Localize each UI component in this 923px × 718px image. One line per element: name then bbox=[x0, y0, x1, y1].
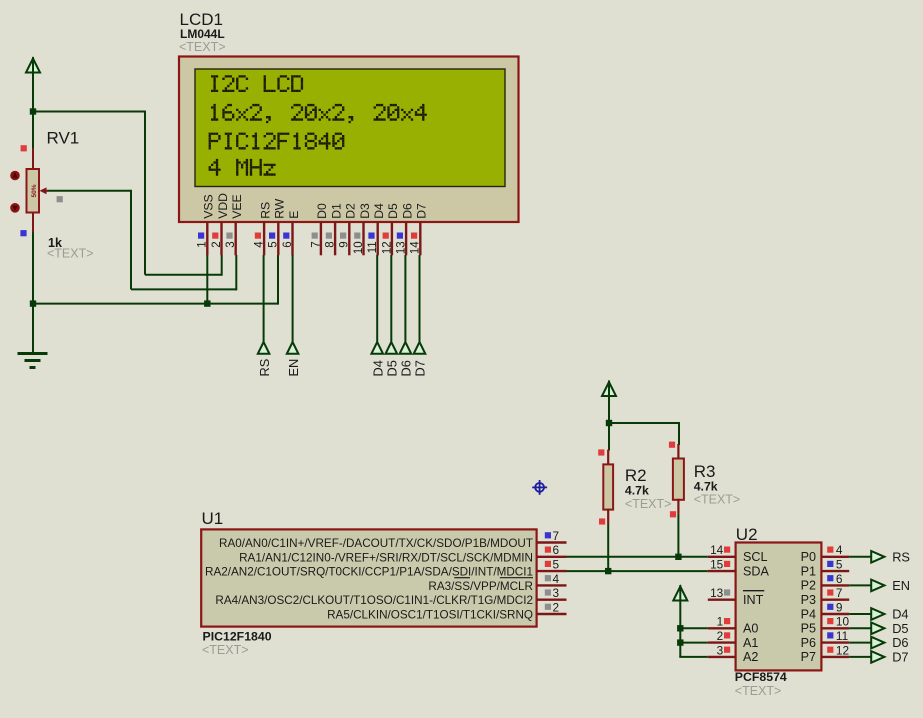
LCD1 pin 8 (D1) bbox=[325, 203, 344, 255]
svg-text:D7: D7 bbox=[413, 360, 428, 376]
svg-text:RS: RS bbox=[892, 549, 910, 564]
ground bbox=[18, 354, 48, 368]
LCD1 pin 13 (D6) bbox=[396, 203, 415, 255]
power terminal (R2/R3 pull-up supply) bbox=[602, 381, 616, 424]
svg-text:RA5/CLKIN/OSC1/T1OSI/T1CKI/SRN: RA5/CLKIN/OSC1/T1OSI/T1CKI/SRNQ bbox=[327, 609, 533, 622]
U2 pin 10 bbox=[821, 615, 849, 629]
svg-text:<TEXT>: <TEXT> bbox=[202, 643, 249, 657]
svg-text:6: 6 bbox=[836, 572, 843, 586]
LCD1 pin 7 (D0) bbox=[310, 203, 329, 255]
wire LCD D7 to terminal bbox=[419, 255, 421, 342]
svg-text:P3: P3 bbox=[801, 593, 816, 607]
U2 pin 15 bbox=[708, 558, 736, 572]
RV1 marker blue bbox=[20, 230, 26, 236]
wire LCD pin1 (VSS) to ground rail bbox=[206, 255, 208, 304]
value R3 4.7k bbox=[694, 480, 718, 494]
svg-text:D7: D7 bbox=[892, 650, 908, 665]
LCD LM044L body bbox=[179, 57, 519, 223]
junction RV1/ground rail bbox=[30, 300, 36, 306]
wire A0 bbox=[680, 627, 708, 629]
LCD text line 3: PIC12F1840 bbox=[209, 133, 345, 150]
wire LCD D5 to terminal bbox=[390, 255, 392, 342]
svg-text:RA4/AN3/OSC2/CLKOUT/T1OSO/C1IN: RA4/AN3/OSC2/CLKOUT/T1OSO/C1IN1-/CLKR/T1… bbox=[215, 594, 533, 607]
U2 pin 3 bbox=[708, 643, 736, 657]
svg-text:6: 6 bbox=[282, 241, 294, 247]
svg-text:7: 7 bbox=[553, 529, 560, 543]
svg-text:4: 4 bbox=[254, 241, 266, 248]
U1 pin 3 bbox=[537, 586, 567, 600]
LCD1 &lt;TEXT&gt; bbox=[179, 40, 226, 54]
LCD1 pin 6 (E) bbox=[282, 211, 301, 256]
U2 pin 12 bbox=[821, 643, 849, 657]
svg-text:A0: A0 bbox=[743, 622, 758, 636]
U1 pin 2 bbox=[537, 600, 567, 614]
U2 pin 9 bbox=[821, 600, 849, 614]
svg-text:PCF8574: PCF8574 bbox=[735, 670, 787, 684]
svg-text:<TEXT>: <TEXT> bbox=[625, 497, 672, 511]
U2 &lt;TEXT&gt; bbox=[735, 684, 782, 698]
wire supply to R2 top bbox=[608, 423, 610, 451]
wire U2 pin 11 to terminal D6 bbox=[849, 642, 871, 644]
U2 pin 6 bbox=[821, 572, 849, 586]
U1 &lt;TEXT&gt; bbox=[202, 643, 249, 657]
svg-text:RW: RW bbox=[273, 198, 287, 219]
svg-text:SCL: SCL bbox=[743, 550, 768, 564]
U2 pin 7 bbox=[821, 586, 849, 600]
svg-text:RS: RS bbox=[258, 202, 272, 219]
wire U2 pin 12 to terminal D7 bbox=[849, 656, 871, 658]
label LCD1 bbox=[180, 10, 223, 29]
terminal RS bbox=[871, 549, 910, 564]
svg-text:P1: P1 bbox=[801, 564, 816, 578]
svg-text:9: 9 bbox=[339, 241, 351, 247]
svg-text:D7: D7 bbox=[415, 203, 429, 219]
svg-text:<TEXT>: <TEXT> bbox=[694, 493, 741, 507]
svg-text:A2: A2 bbox=[743, 650, 758, 664]
resistor R2 bbox=[603, 450, 613, 524]
terminal EN bbox=[871, 578, 910, 593]
svg-text:A1: A1 bbox=[743, 636, 758, 650]
svg-text:4.7k: 4.7k bbox=[625, 484, 649, 498]
LCD screen bbox=[195, 69, 505, 187]
svg-text:5: 5 bbox=[553, 558, 560, 572]
svg-text:PIC12F1840: PIC12F1840 bbox=[203, 630, 272, 644]
RV1 down actuator bbox=[10, 203, 20, 213]
LCD1 pin 1 (VSS) bbox=[197, 194, 216, 255]
svg-text:11: 11 bbox=[836, 629, 848, 643]
label RV1 bbox=[47, 129, 80, 148]
svg-text:R2: R2 bbox=[625, 466, 647, 485]
svg-text:RA0/AN0/C1IN+/VREF-/DACOUT/TX/: RA0/AN0/C1IN+/VREF-/DACOUT/TX/CK/SDO/P1B… bbox=[219, 537, 533, 550]
svg-text:D5: D5 bbox=[386, 203, 400, 219]
wire LCD D6 to terminal bbox=[404, 255, 406, 342]
svg-text:SDA: SDA bbox=[743, 564, 769, 578]
svg-text:P7: P7 bbox=[801, 650, 816, 664]
svg-text:P2: P2 bbox=[801, 579, 816, 593]
IC U1 PIC12F1840 body bbox=[201, 529, 536, 626]
R3 &lt;TEXT&gt; bbox=[694, 493, 741, 507]
svg-text:10: 10 bbox=[836, 615, 850, 629]
svg-text:D0: D0 bbox=[315, 203, 329, 219]
LCD1 pin 2 (VDD) bbox=[211, 193, 230, 255]
svg-text:1: 1 bbox=[197, 241, 209, 247]
LCD text line 1: I2C LCD bbox=[211, 75, 303, 92]
LCD1 pin 3 (VEE) bbox=[225, 194, 244, 255]
svg-text:INT: INT bbox=[743, 593, 764, 607]
LCD1 pin 4 (RS) bbox=[254, 202, 273, 255]
label R3 bbox=[694, 462, 716, 481]
U2 pin 11 bbox=[821, 629, 849, 643]
R2 marker bottom bbox=[599, 518, 605, 524]
RV1 &lt;TEXT&gt; bbox=[47, 247, 94, 261]
wire A1 bbox=[680, 642, 708, 644]
wire A2 bbox=[679, 656, 708, 658]
terminal D6 bbox=[399, 342, 414, 377]
svg-text:EN: EN bbox=[286, 359, 301, 377]
terminal D4 bbox=[871, 607, 908, 622]
svg-text:2: 2 bbox=[553, 600, 560, 614]
terminal D7 bbox=[871, 650, 908, 665]
LCD1 pin 11 (D4) bbox=[367, 203, 386, 255]
svg-text:7: 7 bbox=[310, 241, 322, 247]
svg-text:3: 3 bbox=[553, 586, 560, 600]
junction supply bbox=[606, 420, 612, 426]
svg-text:4: 4 bbox=[836, 543, 843, 557]
U2 pin 13 bbox=[708, 586, 736, 600]
RV1 wiper arrow bbox=[40, 187, 49, 194]
svg-text:<TEXT>: <TEXT> bbox=[47, 247, 94, 261]
junction RV1 top bbox=[30, 108, 36, 114]
svg-text:11: 11 bbox=[367, 241, 379, 253]
U1 pin 7 bbox=[537, 529, 567, 543]
svg-text:9: 9 bbox=[836, 600, 843, 614]
terminal D5 bbox=[871, 621, 908, 636]
junction R2/SDA bbox=[605, 568, 611, 574]
value R2 4.7k bbox=[625, 484, 649, 498]
svg-text:13: 13 bbox=[396, 241, 408, 254]
svg-text:14: 14 bbox=[410, 241, 422, 254]
svg-text:VDD: VDD bbox=[216, 193, 230, 219]
svg-text:VEE: VEE bbox=[230, 194, 244, 218]
wire U2 pin 6 to terminal EN bbox=[849, 584, 871, 586]
svg-text:2: 2 bbox=[211, 241, 223, 247]
wire SCL (U1 pin6 to U2 SCL) bbox=[567, 556, 708, 558]
svg-text:VSS: VSS bbox=[202, 194, 216, 218]
svg-text:P6: P6 bbox=[801, 636, 816, 650]
LCD text line 2: 16x2, 20x2, 20x4 bbox=[211, 104, 427, 123]
junction R3/SCL bbox=[675, 554, 681, 560]
svg-text:RA2/AN2/C1OUT/SRQ/T0CKI/CCP1/P: RA2/AN2/C1OUT/SRQ/T0CKI/CCP1/P1A/SDA/SDI… bbox=[205, 566, 533, 579]
R3 marker top bbox=[669, 442, 675, 448]
wire SDA (U1 pin5 to U2 SDA) bbox=[567, 570, 708, 572]
svg-text:RV1: RV1 bbox=[47, 129, 80, 148]
wire U2 pin 4 to terminal RS bbox=[849, 556, 871, 558]
wire supply to R3 top bbox=[609, 422, 679, 445]
svg-text:D1: D1 bbox=[329, 203, 343, 219]
LCD1 pin 5 (RW) bbox=[268, 198, 287, 255]
svg-text:P5: P5 bbox=[801, 622, 816, 636]
svg-text:10: 10 bbox=[353, 241, 365, 254]
terminal D7 bbox=[413, 342, 428, 377]
svg-text:D2: D2 bbox=[344, 203, 358, 219]
R3 marker bottom bbox=[670, 511, 676, 517]
junction A0 bbox=[677, 625, 683, 631]
potentiometer RV1 bbox=[27, 148, 40, 232]
label U1 bbox=[202, 509, 224, 528]
svg-text:4: 4 bbox=[553, 572, 560, 586]
U2 pin 2 bbox=[708, 629, 736, 643]
svg-text:50%: 50% bbox=[31, 184, 38, 197]
svg-text:RS: RS bbox=[257, 359, 272, 377]
LCD1 pin 9 (D2) bbox=[339, 203, 358, 255]
label R2 bbox=[625, 466, 647, 485]
svg-text:7: 7 bbox=[836, 586, 843, 600]
svg-text:R3: R3 bbox=[694, 462, 716, 481]
wire LCD D4 to terminal bbox=[376, 255, 378, 342]
wire LCD pin6 E to terminal bbox=[292, 255, 294, 342]
U2 pin 14 bbox=[708, 543, 736, 557]
wire U2 pin 9 to terminal D4 bbox=[849, 613, 871, 615]
U1 pin 5 bbox=[537, 558, 567, 572]
svg-text:5: 5 bbox=[836, 558, 843, 572]
svg-text:<TEXT>: <TEXT> bbox=[179, 40, 226, 54]
wire ground rail bbox=[33, 303, 278, 305]
terminal D6 bbox=[871, 635, 908, 650]
svg-text:4.7k: 4.7k bbox=[694, 480, 718, 494]
wire R3 bottom to SCL bbox=[677, 514, 679, 557]
LCD text line 4: 4 MHz bbox=[209, 159, 276, 176]
IC U2 PCF8574 body bbox=[736, 543, 822, 671]
wire R2 bottom to SDA bbox=[607, 524, 609, 572]
RV1 marker red bbox=[21, 145, 27, 151]
junction VSS/ground rail bbox=[204, 300, 210, 306]
RV1 up actuator bbox=[10, 171, 20, 181]
svg-text:1: 1 bbox=[717, 615, 724, 629]
terminal RS bbox=[257, 342, 272, 377]
power terminal (VDD arrow, RV1 top) bbox=[26, 57, 40, 150]
svg-text:8: 8 bbox=[325, 241, 337, 247]
svg-text:D6: D6 bbox=[400, 203, 414, 219]
svg-text:5: 5 bbox=[268, 241, 280, 247]
R2 &lt;TEXT&gt; bbox=[625, 497, 672, 511]
LCD1 pin 12 (D5) bbox=[381, 203, 400, 255]
svg-text:2: 2 bbox=[717, 629, 724, 643]
svg-text:EN: EN bbox=[892, 578, 910, 593]
svg-text:D4: D4 bbox=[372, 203, 386, 219]
wire VDD rail RV1-top to LCD pin2 bbox=[33, 111, 222, 276]
resistor R3 bbox=[673, 444, 684, 514]
U1 pin 4 bbox=[537, 572, 567, 586]
svg-text:LM044L: LM044L bbox=[180, 27, 225, 41]
svg-text:14: 14 bbox=[710, 543, 724, 557]
LCD1 pin 14 (D7) bbox=[410, 203, 429, 255]
wire LCD pin4 RS to terminal bbox=[263, 255, 265, 342]
junction A1 bbox=[677, 639, 683, 645]
svg-text:13: 13 bbox=[710, 586, 724, 600]
value LM044L bbox=[180, 27, 225, 41]
svg-text:D6: D6 bbox=[892, 635, 908, 650]
label PCF8574 bbox=[735, 670, 787, 684]
svg-text:15: 15 bbox=[710, 558, 724, 572]
value 1k bbox=[48, 236, 62, 250]
RV1 marker gray bbox=[57, 196, 63, 202]
terminal D4 bbox=[370, 342, 385, 377]
LCD1 pin 10 (D3) bbox=[353, 203, 372, 255]
svg-text:D5: D5 bbox=[385, 360, 400, 376]
wire U2 pin 10 to terminal D5 bbox=[849, 627, 871, 629]
svg-text:12: 12 bbox=[836, 643, 849, 657]
svg-text:D4: D4 bbox=[370, 360, 385, 376]
power terminal (U2 address pins) bbox=[673, 585, 687, 657]
svg-text:D6: D6 bbox=[399, 360, 414, 376]
svg-text:6: 6 bbox=[553, 543, 560, 557]
svg-text:D4: D4 bbox=[892, 607, 908, 622]
R2 marker top bbox=[598, 449, 604, 455]
svg-text:D3: D3 bbox=[358, 203, 372, 219]
svg-text:U2: U2 bbox=[736, 525, 758, 544]
label PIC12F1840 bbox=[203, 630, 272, 644]
terminal D5 bbox=[385, 342, 400, 377]
svg-text:RA1/AN1/C12IN0-/VREF+/SRI/RX/D: RA1/AN1/C12IN0-/VREF+/SRI/RX/DT/SCL/SCK/… bbox=[239, 551, 533, 564]
label U2 bbox=[736, 525, 758, 544]
U2 pin 5 bbox=[821, 558, 849, 572]
wire LCD pin5 (RW) to ground rail bbox=[277, 255, 279, 305]
svg-text:P4: P4 bbox=[801, 607, 816, 621]
U2 pin 1 bbox=[708, 615, 736, 629]
U1 pin 6 bbox=[537, 543, 567, 557]
svg-text:RA3/SS/VPP/MCLR: RA3/SS/VPP/MCLR bbox=[428, 580, 533, 593]
terminal EN bbox=[286, 342, 301, 377]
svg-text:E: E bbox=[287, 211, 301, 219]
svg-text:3: 3 bbox=[717, 643, 724, 657]
wire RV1 bottom to ground bbox=[32, 231, 34, 353]
svg-text:<TEXT>: <TEXT> bbox=[735, 684, 782, 698]
svg-text:3: 3 bbox=[225, 241, 237, 247]
U2 pin 4 bbox=[821, 543, 849, 557]
wire RV1 wiper to LCD pin3 (VEE) bbox=[48, 190, 237, 291]
svg-text:P0: P0 bbox=[801, 550, 816, 564]
svg-text:12: 12 bbox=[381, 241, 393, 254]
svg-text:U1: U1 bbox=[202, 509, 224, 528]
svg-text:D5: D5 bbox=[892, 621, 908, 636]
origin marker bbox=[532, 480, 547, 495]
svg-text:LCD1: LCD1 bbox=[180, 10, 223, 29]
